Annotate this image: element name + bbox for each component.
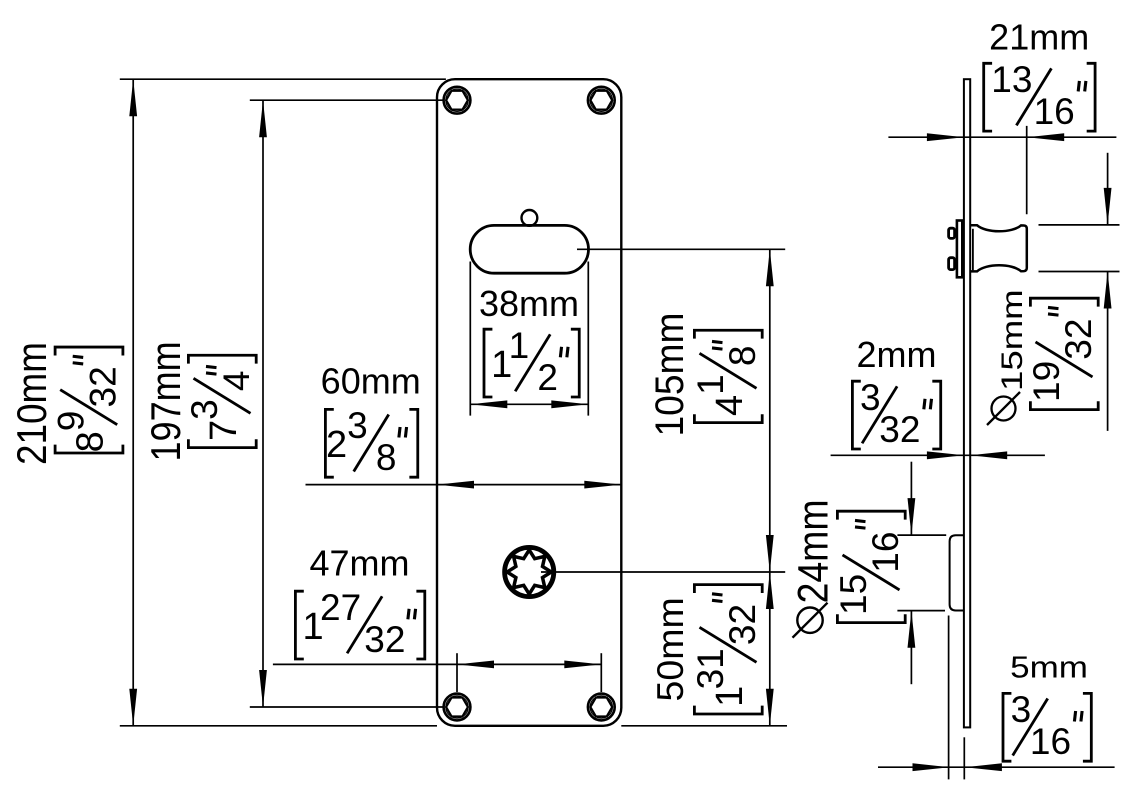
svg-text:27: 27 [320,587,361,628]
screw hole bottom-right [588,694,615,721]
extension line plate bottom-left [120,725,437,727]
extension line knob right [1026,126,1028,214]
fraction 8 9/32 inch [51,347,124,453]
svg-text:16: 16 [865,532,906,573]
svg-text:7: 7 [203,420,245,441]
svg-text:8: 8 [70,431,112,452]
screw hole bottom-left [444,694,471,721]
svg-text:19: 19 [1026,361,1067,402]
fraction 1 27/32 inch [295,587,424,660]
label 5mm [1010,650,1088,685]
fraction 7 3/4 inch [184,355,257,447]
cylinder slot (oval) [470,225,588,273]
label 210mm [9,342,56,465]
fraction 4 1/8 inch [690,330,763,422]
svg-text:32: 32 [879,409,920,450]
extension line boss face [948,616,950,780]
svg-text:16: 16 [1034,91,1075,132]
svg-text:210mm: 210mm [9,342,56,465]
extension line bottom screw left [456,653,458,692]
extension line slot right [587,262,589,416]
fraction 15/16 inch [833,511,906,622]
fraction 13/16 inch [984,59,1095,132]
svg-text:5mm: 5mm [1010,650,1088,685]
extension line bottom screws [250,706,444,708]
svg-text:1: 1 [690,374,731,395]
svg-text:2: 2 [537,357,558,398]
front view plate outline [437,79,621,726]
svg-text:13: 13 [991,59,1032,100]
fraction 3/32 inch [852,377,940,450]
dimension line diameter 15mm [1104,153,1112,431]
dimension line 47mm [273,661,601,669]
svg-text:32: 32 [722,604,763,645]
side view plate [964,79,970,727]
boss bump [950,535,964,610]
label 47mm [309,542,409,583]
svg-text:15mm: 15mm [996,289,1029,391]
extension line plate bottom-right [621,725,787,727]
extension line bottom screw right [600,653,602,692]
svg-text:32: 32 [1058,319,1099,360]
extension line slot left [469,262,471,416]
svg-text:8: 8 [722,346,763,367]
leader line boss bottom [897,610,945,612]
dimension line 60mm [306,481,622,489]
dimension line diameter 24mm [908,462,916,685]
svg-text:32: 32 [364,619,405,660]
extension line top screws [250,99,444,101]
svg-text:3: 3 [347,405,368,446]
label 50mm [649,597,691,701]
leader line boss top [897,534,946,536]
fraction 1 1/2 inch [484,325,579,398]
label diameter 24mm [789,499,837,637]
fraction 19/32 inch [1026,298,1099,409]
pin circle above slot [522,210,538,226]
label 2mm [857,334,937,375]
clip tab upper [949,228,955,238]
svg-text:3: 3 [1011,689,1032,730]
svg-text:16: 16 [1030,721,1071,762]
dimension line 21mm [888,133,1116,141]
svg-text:4: 4 [216,371,257,392]
label 38mm [479,283,579,324]
dimension line 5mm [878,763,1115,771]
svg-text:38mm: 38mm [479,283,579,324]
dimension line 197mm [259,100,267,707]
svg-text:15: 15 [833,574,874,615]
torx hole [505,547,554,596]
svg-text:105mm: 105mm [648,313,693,437]
svg-text:24mm: 24mm [789,499,837,603]
svg-text:2: 2 [326,424,347,466]
svg-text:3: 3 [860,377,881,418]
fraction 3/16 inch [1003,689,1091,762]
leader line slot centre [577,248,785,250]
screw hole top-right [588,87,615,114]
fraction 2 3/8 inch [325,405,417,478]
svg-text:3: 3 [184,399,225,420]
backplate bar [957,221,962,278]
knob profile [971,225,1027,271]
svg-text:47mm: 47mm [309,542,409,583]
svg-text:4: 4 [709,395,751,416]
fraction 1 31/32 inch [690,585,763,714]
svg-text:8: 8 [376,437,397,478]
extension line plate top [120,78,446,80]
svg-text:2mm: 2mm [857,334,937,375]
dimension line 210mm [129,79,137,726]
svg-text:60mm: 60mm [321,360,421,401]
svg-text:32: 32 [83,366,124,407]
leader line knob bottom [1039,271,1120,273]
dimension line 2mm [831,451,1045,459]
label 21mm [989,17,1089,58]
svg-text:31: 31 [690,648,731,689]
svg-text:9: 9 [51,411,92,432]
screw hole top-left [444,87,471,114]
leader line torx centre [541,571,785,573]
clip tab lower [949,258,955,270]
label diameter 15mm [987,289,1029,425]
svg-text:21mm: 21mm [989,17,1089,58]
extension line plate back bottom [963,737,965,779]
leader line knob top [1039,224,1120,226]
label 105mm [648,313,693,437]
svg-text:1: 1 [509,325,530,366]
svg-text:50mm: 50mm [649,597,691,701]
label 60mm [321,360,421,401]
dimension line 50mm [766,572,774,726]
dimension line 38mm [470,400,588,408]
dimension line 105mm [766,249,774,572]
svg-text:197mm: 197mm [144,341,190,461]
label 197mm [144,341,190,461]
